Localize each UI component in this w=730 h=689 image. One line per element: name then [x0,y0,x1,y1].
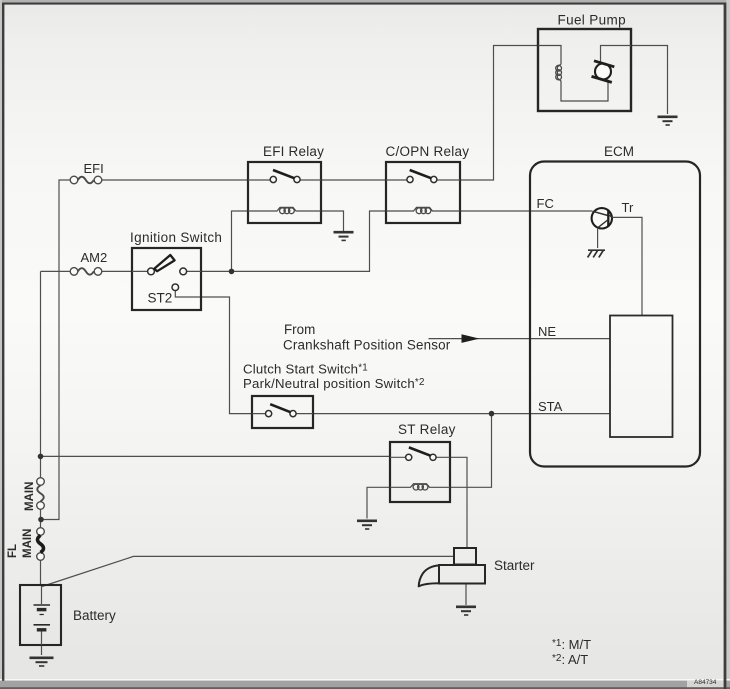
svg-text:Clutch Start Switch*1: Clutch Start Switch*1 [243,362,368,377]
svg-text:Battery: Battery [73,608,116,623]
transistor Tr [592,208,642,315]
node EFI relay coil / AM2 junction [229,269,235,275]
fuse EFI [70,176,102,184]
fuel pump box [538,29,631,111]
wire battery to ground [41,645,43,655]
wire starter to ground [465,584,467,606]
wire AM2 feed [41,270,71,272]
ignition switch contact and lever [132,255,201,275]
node ST relay feed junction [38,454,44,460]
svg-text:Starter: Starter [494,558,535,573]
svg-text:Park/Neutral position Switch*2: Park/Neutral position Switch*2 [243,376,425,391]
ground right of fuel pump [658,117,678,125]
wire C/OPN relay to fuel pump [460,46,538,181]
svg-text:NE: NE [538,324,556,339]
node STA junction [489,411,495,417]
starter body [419,565,485,586]
svg-text:Tr: Tr [622,200,634,215]
EFI relay coil [248,207,321,213]
svg-text:EFI: EFI [84,161,104,176]
wire ignition switch to C/OPN relay coil [201,211,386,271]
svg-text:ST Relay: ST Relay [398,422,456,437]
wire battery cable to starter [42,556,454,586]
starter solenoid [454,548,476,565]
wire ST relay to starter solenoid [450,457,467,548]
svg-text:A84734: A84734 [694,679,717,686]
fuse MAIN [37,478,45,510]
C/OPN relay coil [386,207,460,213]
svg-text:ECM: ECM [604,144,634,159]
svg-text:STA: STA [538,399,563,414]
svg-text:C/OPN Relay: C/OPN Relay [386,144,470,159]
wire EFI feed from FL MAIN node [41,180,70,520]
wire NE from crankshaft position sensor with arrowhead [429,334,611,343]
wire ST relay coil to ground [367,487,390,518]
wire clutch switch to ECM STA pin [313,413,610,415]
wire battery main vertical [40,271,42,585]
wire EFI relay coil branch [232,211,249,271]
fuel pump motor [592,46,632,83]
ground below starter [456,607,476,615]
wire ST2 to clutch start switch [175,291,252,414]
svg-text:AM2: AM2 [81,250,108,265]
clutch start switch box [252,396,313,428]
svg-text:From: From [284,322,315,337]
C/OPN relay contact [386,170,460,183]
wire EFI relay to C/OPN relay contact [321,179,386,181]
svg-text:ST2: ST2 [148,291,173,306]
wire C/OPN relay coil to ECM FC pin [460,210,592,212]
fusible link FL MAIN [37,528,45,561]
relay C/OPN Relay box [386,162,460,223]
svg-text:FC: FC [537,196,554,211]
EFI relay contact [248,170,321,183]
ignition switch ST2 terminal [172,284,179,291]
wire EFI relay coil to ground [321,211,344,232]
svg-text:Crankshaft Position Sensor: Crankshaft Position Sensor [283,338,451,353]
ECM box [530,162,700,467]
ST relay coil [390,484,450,490]
ST relay contact [390,447,450,460]
svg-text:EFI Relay: EFI Relay [263,144,324,159]
fuse AM2 [70,268,102,276]
ECM driver block [610,316,673,438]
wire fuel pump to ground [631,46,668,115]
clutch start switch contact [252,404,313,417]
ignition switch box [132,248,201,310]
battery cells [34,586,51,645]
fuel pump coil [538,46,608,102]
svg-text:Ignition Switch: Ignition Switch [130,230,222,245]
wire STA node to ST relay coil [450,414,492,488]
node MAIN/FL MAIN junction [38,517,44,523]
svg-text:MAIN: MAIN [24,482,36,511]
wire AM2 fuse to ignition switch [102,270,132,272]
relay ST Relay box [390,442,450,502]
svg-text:MAIN: MAIN [22,529,34,558]
wire battery node to ST relay contact [41,455,391,457]
battery box [20,585,61,645]
svg-text:FL: FL [7,544,19,558]
wire EFI fuse to EFI relay [102,179,248,181]
chassis ground inside ECM [588,250,605,257]
svg-text:Fuel Pump: Fuel Pump [558,13,626,28]
ground below ST relay [357,521,377,529]
ground below EFI relay [334,232,354,240]
relay EFI Relay box [248,162,321,223]
ground below battery [30,658,54,666]
